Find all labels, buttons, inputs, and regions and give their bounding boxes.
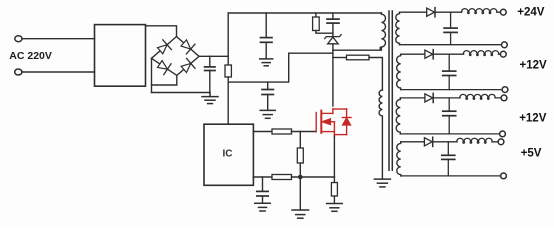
node terminal +24V out <box>500 9 506 15</box>
wire primary return <box>333 48 380 51</box>
svg-text:IC: IC <box>223 149 233 160</box>
EMI filter block FL1 <box>95 25 146 87</box>
capacitor C6 (+24V) <box>444 12 457 45</box>
inductor L3 (+12V b) <box>460 94 501 99</box>
output stage 1 wire bottom <box>400 44 502 46</box>
ground (bridge) <box>202 93 218 104</box>
capacitor C8 (+12V b) <box>443 98 456 134</box>
zener diode D5 (clamp) <box>325 35 341 44</box>
ground (C2) <box>260 59 273 66</box>
resistor R5 (gate pulldown, vertical) <box>297 132 303 178</box>
diode D1 (bridge top-left) <box>156 40 171 56</box>
diode D8 (+12V b) <box>425 93 460 102</box>
resistor R1 (startup, vertical) <box>225 65 231 77</box>
svg-text:+5V: +5V <box>521 148 542 160</box>
node terminal +12Vb return <box>500 131 506 137</box>
node AC input terminal N <box>15 69 22 75</box>
wire box to bridge top <box>146 26 177 37</box>
wire L input <box>22 38 95 40</box>
wire sense to source <box>292 176 335 178</box>
node AC input terminal L <box>15 36 22 42</box>
wire B+ riser <box>227 13 229 65</box>
capacitor C3 (clamp) <box>327 13 339 37</box>
wire junction to ground <box>299 177 301 210</box>
resistor R6 (sense) <box>272 175 292 180</box>
svg-text:+24V: +24V <box>517 7 545 19</box>
ground (C5) <box>255 203 270 211</box>
node terminal +24V return <box>502 42 508 48</box>
wire IC gate pin <box>253 131 272 133</box>
output stage 2 wire top <box>401 53 425 55</box>
wire MOSFET source down <box>333 136 335 177</box>
wire N input <box>22 71 95 73</box>
output stage 4 wire top <box>401 141 425 143</box>
diode D6 (+24V) <box>427 8 462 17</box>
capacitor C4 (on feedback run) <box>262 82 273 110</box>
inductor L4 (+5V) <box>457 138 498 143</box>
bridge rectifier BR1 diamond <box>152 37 200 76</box>
transformer T1 secondary S2 <box>397 54 401 89</box>
resistor R7 (source sense, vertical) <box>331 177 337 203</box>
resistor R2 (clamp, vertical) <box>313 13 333 33</box>
transformer T1 primary winding <box>381 13 385 50</box>
ground (C4) <box>260 110 275 118</box>
diode D4 (bridge bottom-right) <box>180 58 195 74</box>
wire bridge bottom corner drop <box>152 75 177 85</box>
output stage 2 wire bottom <box>401 89 502 91</box>
capacitor C7 (+12V a) <box>443 54 456 89</box>
capacitor C5 (sense filter) <box>257 177 268 203</box>
wire ground rail <box>152 92 211 94</box>
output stage 3 wire bottom <box>400 133 499 135</box>
svg-text:+12V: +12V <box>520 60 548 72</box>
IC U1 <box>204 124 253 185</box>
transformer T1 secondary S4 <box>397 142 401 176</box>
transformer T1 core <box>389 11 392 170</box>
node terminal +5V return <box>501 173 507 179</box>
capacitor C2 (rail bypass) <box>261 13 273 59</box>
transformer T1 secondary S3 <box>396 98 400 134</box>
wire gate <box>292 131 317 133</box>
ground (junction) <box>292 210 309 218</box>
capacitor C1 (bulk) <box>205 56 215 92</box>
inductor L2 (+12V a) <box>463 51 500 56</box>
output stage 1 wire top <box>400 11 427 13</box>
wire top DC rail <box>228 12 381 14</box>
diode D7 (+12V a) <box>425 50 464 59</box>
node terminal +12Vb out <box>501 95 507 101</box>
node terminal +12Va out <box>500 51 506 57</box>
ground (R7) <box>327 204 343 212</box>
resistor R3 (aux feed, horizontal) <box>333 55 383 90</box>
ground (aux winding) <box>374 179 390 187</box>
wire bridge left corner to ground rail <box>151 58 153 92</box>
transistor Q1 MOSFET (red) <box>316 109 351 136</box>
diode D2 (bridge top-right) <box>179 38 195 54</box>
node junction dot <box>298 175 303 180</box>
resistor R4 (gate) <box>272 129 292 134</box>
svg-text:+12V: +12V <box>519 113 547 125</box>
wire feedback run <box>228 53 333 82</box>
inductor L1 (+24V) <box>462 9 501 14</box>
transformer T1 aux winding <box>379 90 382 179</box>
transformer T1 secondary S1 <box>396 12 400 45</box>
wire IC sense pin <box>253 176 272 178</box>
svg-text:AC 220V: AC 220V <box>9 50 52 62</box>
output stage 3 wire top <box>400 97 425 99</box>
node terminal +5V out <box>498 139 504 145</box>
diode D9 (+5V) <box>424 137 457 146</box>
wire bridge right corner to node B+ <box>199 55 228 57</box>
wire R1 to IC supply <box>227 77 229 124</box>
output stage 4 wire bottom <box>401 175 501 177</box>
diode D3 (bridge bottom-left) <box>156 59 171 75</box>
capacitor C9 (+5V) <box>442 142 455 176</box>
node terminal +12Va return <box>502 87 508 93</box>
wire drain line <box>332 44 334 106</box>
